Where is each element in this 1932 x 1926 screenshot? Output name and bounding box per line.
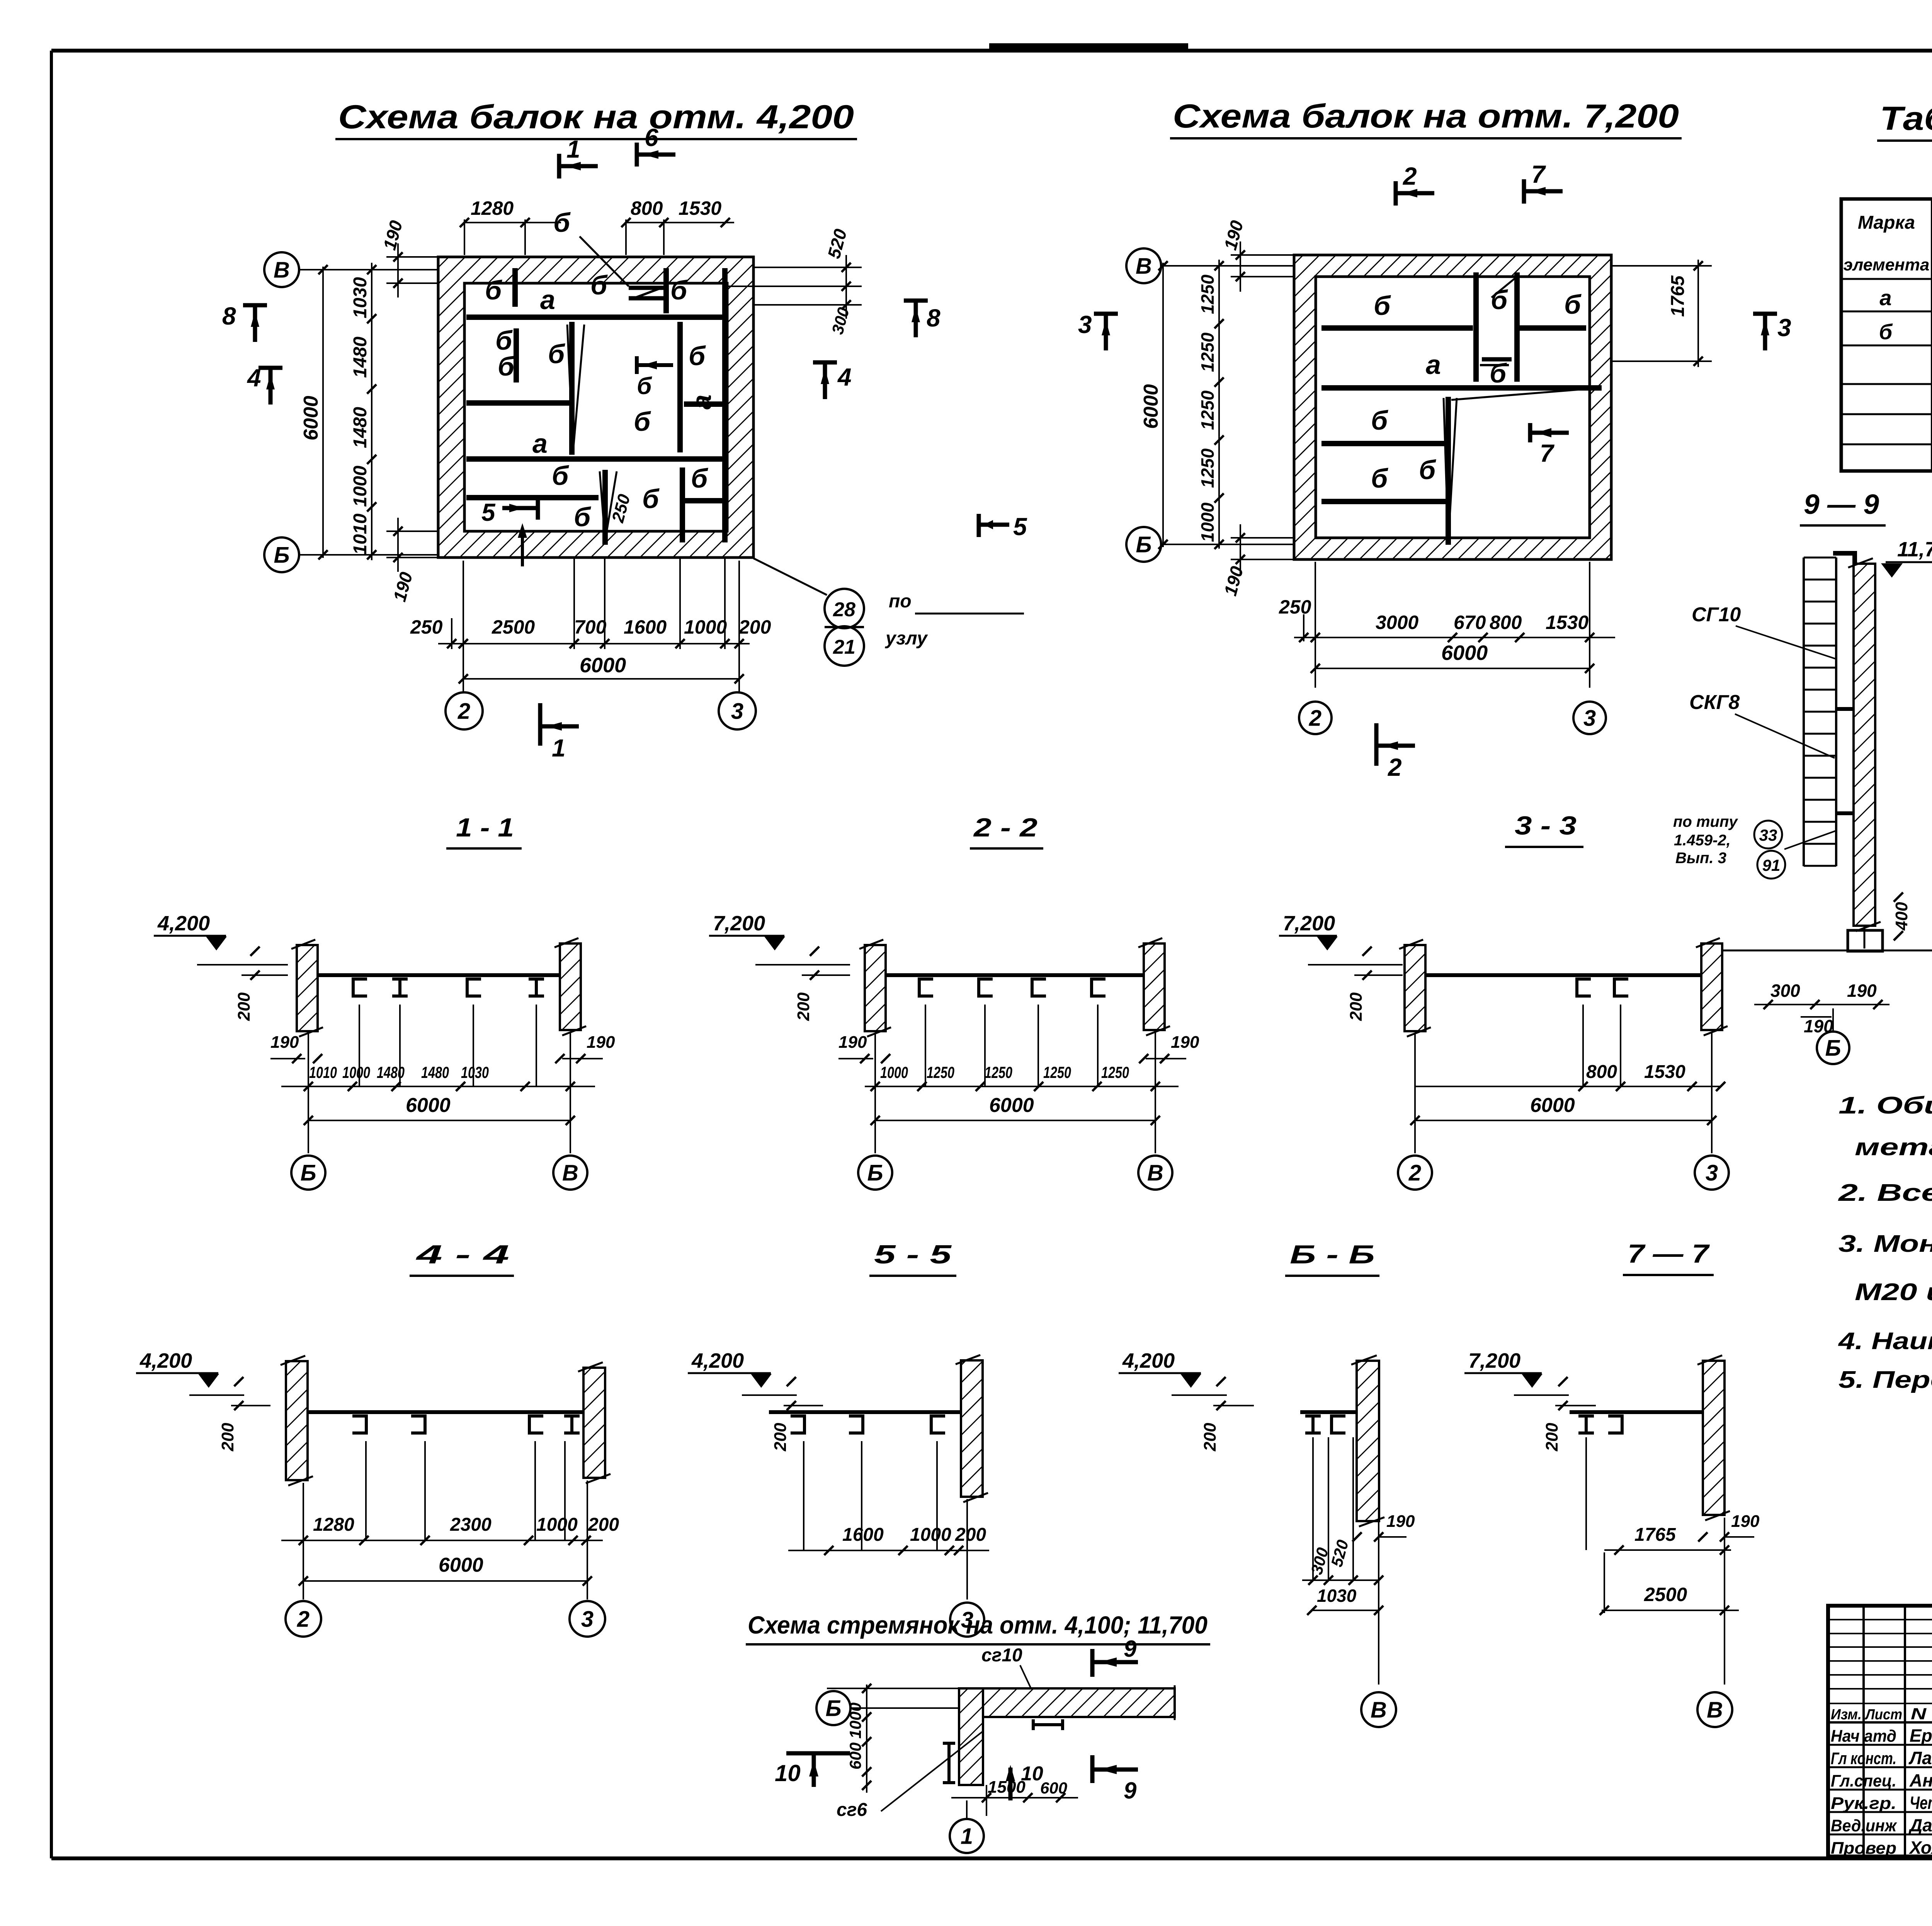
svg-text:4. Наименьшее усилие для ра: 4. Наименьшее усилие для расчета прикреп… bbox=[1838, 1328, 1932, 1355]
svg-text:Схема балок на отм. 4,200: Схема балок на отм. 4,200 bbox=[338, 99, 854, 136]
svg-text:400: 400 bbox=[1892, 902, 1911, 931]
svg-text:28: 28 bbox=[833, 598, 855, 621]
svg-text:200: 200 bbox=[955, 1525, 986, 1545]
svg-text:Б: Б bbox=[1136, 532, 1151, 557]
svg-text:Гл конст.: Гл конст. bbox=[1831, 1749, 1896, 1768]
svg-text:В: В bbox=[562, 1160, 578, 1185]
svg-text:1250: 1250 bbox=[1043, 1063, 1071, 1081]
svg-text:8: 8 bbox=[222, 302, 236, 330]
svg-text:б: б bbox=[670, 275, 688, 305]
svg-text:250: 250 bbox=[1279, 596, 1311, 618]
svg-text:1: 1 bbox=[566, 135, 580, 163]
svg-text:по типу: по типу bbox=[1673, 813, 1738, 830]
svg-text:190: 190 bbox=[1847, 981, 1877, 1001]
svg-text:1000: 1000 bbox=[880, 1063, 908, 1081]
svg-text:б: б bbox=[1371, 463, 1388, 493]
svg-text:200: 200 bbox=[794, 992, 813, 1021]
svg-text:200: 200 bbox=[1201, 1423, 1219, 1452]
svg-text:1480: 1480 bbox=[350, 337, 371, 378]
svg-text:3: 3 bbox=[1706, 1160, 1718, 1185]
svg-text:1250: 1250 bbox=[927, 1063, 954, 1081]
svg-text:Б: Б bbox=[825, 1696, 841, 1721]
svg-text:1000: 1000 bbox=[684, 616, 727, 638]
svg-text:800: 800 bbox=[631, 197, 663, 219]
svg-text:Давыдова: Давыдова bbox=[1908, 1815, 1932, 1835]
svg-text:б: б bbox=[642, 484, 660, 514]
svg-text:1010: 1010 bbox=[309, 1063, 337, 1081]
svg-text:190: 190 bbox=[838, 1033, 867, 1052]
svg-text:200: 200 bbox=[1347, 992, 1366, 1021]
svg-text:а: а bbox=[1879, 286, 1891, 310]
svg-text:Вед.инж: Вед.инж bbox=[1831, 1816, 1897, 1835]
svg-text:Хохлова: Хохлова bbox=[1908, 1838, 1932, 1858]
svg-text:190: 190 bbox=[1386, 1512, 1415, 1531]
svg-text:Четверикова: Четверикова bbox=[1910, 1793, 1932, 1813]
svg-text:1. Общие данные , техническу: 1. Общие данные , техническую спецификац… bbox=[1838, 1092, 1932, 1119]
svg-text:2: 2 bbox=[1388, 753, 1402, 781]
svg-text:1250: 1250 bbox=[1197, 390, 1218, 430]
svg-text:1 - 1: 1 - 1 bbox=[456, 813, 514, 842]
svg-text:10: 10 bbox=[1021, 1763, 1043, 1785]
svg-text:по: по bbox=[889, 591, 912, 612]
svg-text:Вып. 3: Вып. 3 bbox=[1675, 850, 1726, 867]
svg-text:Лист: Лист bbox=[1864, 1707, 1902, 1723]
svg-text:190: 190 bbox=[1731, 1512, 1760, 1531]
svg-text:91: 91 bbox=[1762, 856, 1781, 874]
svg-text:б: б bbox=[590, 270, 608, 300]
svg-text:Ерзин: Ерзин bbox=[1910, 1725, 1932, 1746]
svg-text:4: 4 bbox=[837, 363, 852, 391]
svg-text:200: 200 bbox=[218, 1423, 237, 1452]
svg-text:1280: 1280 bbox=[471, 197, 514, 219]
svg-text:6000: 6000 bbox=[1441, 641, 1488, 665]
svg-text:б: б bbox=[1490, 358, 1507, 388]
svg-text:Рук.гр.: Рук.гр. bbox=[1831, 1794, 1896, 1813]
svg-text:5: 5 bbox=[481, 498, 496, 526]
svg-text:Таблица элементов конструкци: Таблица элементов конструкций bbox=[1880, 100, 1932, 137]
svg-text:Схема балок на отм. 7,200: Схема балок на отм. 7,200 bbox=[1173, 98, 1679, 135]
svg-text:4 - 4: 4 - 4 bbox=[415, 1240, 509, 1269]
svg-text:1030: 1030 bbox=[350, 277, 371, 318]
svg-text:6: 6 bbox=[645, 124, 658, 151]
svg-text:200: 200 bbox=[1543, 1423, 1561, 1452]
svg-text:Провер: Провер bbox=[1831, 1839, 1896, 1858]
svg-text:700: 700 bbox=[574, 616, 607, 638]
svg-text:600: 600 bbox=[846, 1742, 864, 1770]
svg-text:сг6: сг6 bbox=[837, 1800, 867, 1820]
svg-text:600: 600 bbox=[1040, 1779, 1067, 1797]
svg-text:1: 1 bbox=[552, 734, 566, 762]
svg-text:а: а bbox=[1426, 350, 1441, 380]
svg-text:3: 3 bbox=[581, 1606, 594, 1632]
svg-text:Б: Б bbox=[274, 542, 289, 568]
svg-text:1: 1 bbox=[961, 1824, 973, 1849]
svg-text:1000: 1000 bbox=[536, 1515, 578, 1535]
svg-text:4: 4 bbox=[247, 364, 261, 392]
svg-text:б: б bbox=[1491, 285, 1508, 315]
svg-text:1765: 1765 bbox=[1668, 275, 1688, 317]
svg-text:6000: 6000 bbox=[1140, 384, 1162, 429]
svg-text:2: 2 bbox=[457, 699, 470, 724]
svg-text:6000: 6000 bbox=[300, 396, 322, 440]
svg-text:5. Перечень элементов стрем: 5. Перечень элементов стремянок см. на л… bbox=[1838, 1367, 1932, 1393]
svg-text:200: 200 bbox=[235, 992, 253, 1021]
svg-text:1765: 1765 bbox=[1634, 1525, 1676, 1545]
svg-text:3: 3 bbox=[1777, 314, 1791, 342]
svg-text:1530: 1530 bbox=[1546, 612, 1588, 633]
svg-text:N докум.: N докум. bbox=[1911, 1705, 1932, 1723]
svg-text:б: б bbox=[637, 373, 652, 399]
svg-text:б: б bbox=[1371, 405, 1388, 435]
svg-text:7: 7 bbox=[1531, 160, 1546, 188]
svg-text:б: б bbox=[1374, 291, 1391, 321]
svg-text:1530: 1530 bbox=[1644, 1062, 1685, 1082]
svg-text:Марка: Марка bbox=[1858, 212, 1915, 233]
svg-text:3000: 3000 bbox=[1376, 612, 1418, 633]
svg-text:Б: Б bbox=[867, 1160, 883, 1185]
svg-text:1250: 1250 bbox=[985, 1063, 1012, 1081]
svg-text:б: б bbox=[498, 351, 515, 381]
svg-text:1250: 1250 bbox=[1101, 1063, 1129, 1081]
svg-text:7 — 7: 7 — 7 bbox=[1628, 1239, 1710, 1268]
svg-text:3. Монтаж вести на болтах: 3. Монтаж вести на болтах нормальной точ… bbox=[1838, 1231, 1932, 1257]
svg-text:1280: 1280 bbox=[313, 1515, 354, 1535]
svg-text:200: 200 bbox=[738, 616, 771, 638]
svg-text:а: а bbox=[687, 394, 717, 410]
svg-text:9: 9 bbox=[1124, 1778, 1137, 1804]
svg-text:190: 190 bbox=[1171, 1033, 1199, 1052]
svg-text:1000: 1000 bbox=[350, 466, 371, 507]
svg-text:2: 2 bbox=[1309, 705, 1321, 731]
svg-text:33: 33 bbox=[1759, 826, 1777, 844]
svg-text:9: 9 bbox=[1124, 1636, 1137, 1662]
svg-text:6000: 6000 bbox=[1530, 1094, 1575, 1117]
svg-text:1010: 1010 bbox=[350, 513, 371, 555]
svg-text:2 - 2: 2 - 2 bbox=[973, 813, 1038, 842]
svg-text:металла см. листы 1, 2.: металла см. листы 1, 2. bbox=[1855, 1134, 1932, 1161]
svg-text:В: В bbox=[1136, 253, 1152, 279]
svg-text:б: б bbox=[634, 406, 651, 437]
svg-text:3 - 3: 3 - 3 bbox=[1515, 811, 1577, 840]
svg-text:200: 200 bbox=[588, 1515, 619, 1535]
svg-text:а: а bbox=[540, 285, 555, 315]
svg-text:СГ10: СГ10 bbox=[1692, 603, 1741, 626]
svg-text:200: 200 bbox=[771, 1423, 790, 1452]
svg-text:800: 800 bbox=[1490, 612, 1522, 633]
svg-text:В: В bbox=[1707, 1697, 1723, 1722]
svg-text:190: 190 bbox=[587, 1033, 615, 1052]
svg-text:Изм.: Изм. bbox=[1831, 1707, 1862, 1723]
svg-text:1480: 1480 bbox=[421, 1063, 449, 1081]
svg-text:7,200: 7,200 bbox=[713, 912, 765, 935]
svg-text:21: 21 bbox=[833, 636, 855, 658]
svg-text:2: 2 bbox=[297, 1606, 310, 1632]
svg-text:6000: 6000 bbox=[439, 1554, 483, 1576]
svg-text:1030: 1030 bbox=[1317, 1586, 1357, 1606]
svg-text:М20 и монтажной сварке.: М20 и монтажной сварке. bbox=[1855, 1279, 1932, 1306]
svg-text:1530: 1530 bbox=[679, 197, 721, 219]
svg-text:4,200: 4,200 bbox=[157, 912, 210, 935]
svg-text:Б: Б bbox=[300, 1160, 316, 1185]
svg-text:2500: 2500 bbox=[492, 616, 535, 638]
svg-text:элемента: элемента bbox=[1844, 255, 1930, 274]
svg-text:3: 3 bbox=[1583, 705, 1596, 731]
svg-text:1.459-2,: 1.459-2, bbox=[1674, 832, 1731, 849]
svg-text:а: а bbox=[532, 428, 548, 459]
svg-text:б: б bbox=[485, 275, 502, 305]
svg-text:6000: 6000 bbox=[989, 1094, 1034, 1117]
svg-text:Б: Б bbox=[1825, 1035, 1841, 1061]
svg-text:4,200: 4,200 bbox=[1122, 1349, 1175, 1372]
svg-text:2500: 2500 bbox=[1644, 1584, 1687, 1605]
svg-text:б: б bbox=[1419, 455, 1436, 485]
svg-text:5: 5 bbox=[1013, 513, 1027, 541]
svg-text:1600: 1600 bbox=[842, 1525, 884, 1545]
svg-text:1000: 1000 bbox=[910, 1525, 951, 1545]
svg-text:4,200: 4,200 bbox=[691, 1349, 744, 1372]
svg-text:б: б bbox=[691, 463, 708, 493]
svg-text:В: В bbox=[1371, 1697, 1387, 1722]
svg-text:1030: 1030 bbox=[461, 1063, 489, 1081]
svg-text:1600: 1600 bbox=[624, 616, 667, 638]
svg-text:Антонов: Антонов bbox=[1909, 1770, 1932, 1790]
svg-text:Схема стремянок на отм. 4,100;: Схема стремянок на отм. 4,100; 11,700 bbox=[748, 1611, 1207, 1639]
svg-text:7,200: 7,200 bbox=[1283, 912, 1335, 935]
svg-text:2: 2 bbox=[1408, 1160, 1421, 1185]
svg-text:190: 190 bbox=[270, 1033, 299, 1052]
svg-text:7,200: 7,200 bbox=[1468, 1349, 1520, 1372]
svg-text:1250: 1250 bbox=[1197, 274, 1218, 314]
svg-text:3: 3 bbox=[731, 699, 743, 724]
svg-text:СКГ8: СКГ8 bbox=[1689, 691, 1740, 714]
svg-text:Нач атд: Нач атд bbox=[1831, 1727, 1896, 1746]
svg-text:1250: 1250 bbox=[1197, 332, 1218, 372]
svg-text:б: б bbox=[1879, 320, 1893, 344]
svg-text:1000: 1000 bbox=[1197, 502, 1218, 542]
svg-text:сг10: сг10 bbox=[981, 1645, 1022, 1666]
svg-text:Ламякин: Ламякин bbox=[1908, 1748, 1932, 1768]
svg-text:300: 300 bbox=[1770, 981, 1800, 1001]
svg-text:2300: 2300 bbox=[450, 1515, 492, 1535]
svg-text:1000: 1000 bbox=[342, 1063, 370, 1081]
svg-text:б: б bbox=[1564, 289, 1582, 320]
svg-text:3: 3 bbox=[1078, 311, 1092, 338]
svg-text:4,200: 4,200 bbox=[139, 1349, 192, 1372]
svg-text:9 — 9: 9 — 9 bbox=[1804, 489, 1879, 520]
svg-text:В: В bbox=[274, 257, 290, 282]
svg-text:Б - Б: Б - Б bbox=[1290, 1240, 1375, 1269]
svg-text:узлу: узлу bbox=[885, 628, 928, 649]
svg-text:11,700: 11,700 bbox=[1897, 538, 1932, 561]
svg-text:2: 2 bbox=[1403, 162, 1417, 190]
svg-text:1480: 1480 bbox=[350, 407, 371, 448]
svg-text:1480: 1480 bbox=[377, 1063, 405, 1081]
svg-text:6000: 6000 bbox=[406, 1094, 451, 1117]
svg-text:6000: 6000 bbox=[580, 654, 626, 677]
svg-text:Гл.спец.: Гл.спец. bbox=[1831, 1771, 1896, 1790]
svg-text:250: 250 bbox=[410, 616, 443, 638]
svg-text:б: б bbox=[548, 339, 565, 369]
svg-text:б: б bbox=[552, 461, 569, 491]
svg-text:5 - 5: 5 - 5 bbox=[874, 1240, 952, 1269]
svg-text:б: б bbox=[574, 502, 591, 532]
svg-text:7: 7 bbox=[1540, 439, 1555, 467]
svg-text:б: б bbox=[689, 341, 706, 371]
svg-text:2. Все заводские соединения: 2. Все заводские соединения сварные. bbox=[1838, 1180, 1932, 1206]
svg-text:8: 8 bbox=[927, 304, 940, 332]
svg-text:800: 800 bbox=[1586, 1062, 1617, 1082]
svg-text:1000: 1000 bbox=[846, 1703, 864, 1739]
svg-text:10: 10 bbox=[775, 1760, 801, 1786]
svg-text:В: В bbox=[1147, 1160, 1163, 1185]
svg-text:670: 670 bbox=[1454, 612, 1486, 633]
svg-text:1250: 1250 bbox=[1197, 448, 1218, 488]
